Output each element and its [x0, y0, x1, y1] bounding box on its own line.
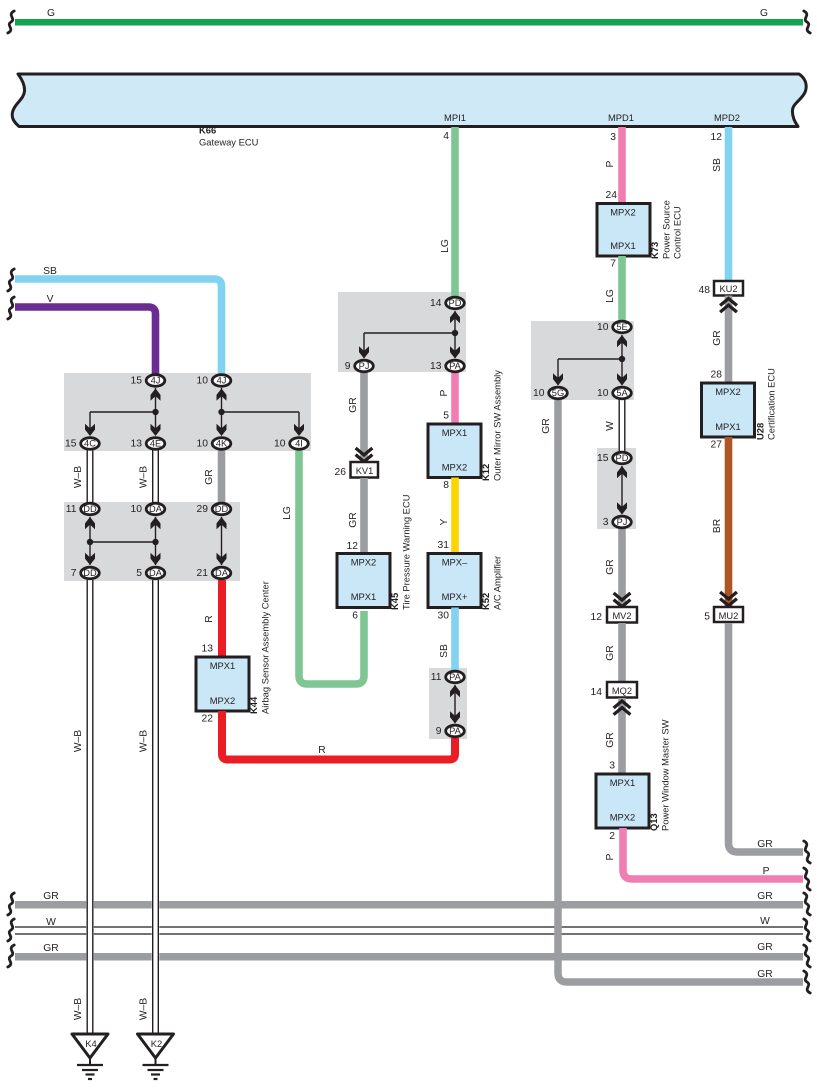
junction block (PD/PJ right) [597, 448, 636, 529]
bus G top [15, 19, 803, 26]
svg-text:3: 3 [603, 517, 609, 528]
svg-text:MPX1: MPX1 [715, 421, 741, 432]
svg-text:22: 22 [202, 714, 214, 725]
svg-text:LG: LG [282, 506, 293, 520]
wire W-B from DA5 to ground K2 [139, 580, 160, 1033]
svg-text:7: 7 [610, 259, 616, 270]
svg-text:13: 13 [131, 439, 143, 450]
ECU K73 Power Source Control ECU [597, 200, 683, 259]
svg-text:G: G [47, 8, 55, 19]
svg-text:W–B: W–B [139, 730, 150, 752]
svg-text:13: 13 [202, 644, 214, 655]
svg-text:PA: PA [449, 361, 462, 371]
connector DA pin 21 [197, 567, 231, 579]
svg-text:Airbag Sensor Assembly Center: Airbag Sensor Assembly Center [260, 581, 271, 714]
svg-text:3: 3 [609, 761, 615, 772]
wire GR from PJ3 to MV2 [618, 528, 626, 607]
svg-text:GR: GR [757, 942, 772, 953]
connector MQ2 pin 14 [591, 682, 637, 698]
svg-text:28: 28 [711, 370, 723, 381]
svg-text:8: 8 [443, 480, 449, 491]
wire Y from K12 pin 8 to K52 pin 31 [451, 478, 459, 554]
connector 4I pin 10 [274, 438, 308, 450]
svg-text:GR: GR [757, 891, 772, 902]
connector MU2 pin 5 [704, 607, 743, 623]
svg-text:Power Source: Power Source [661, 200, 672, 259]
wire SB left entry [15, 279, 222, 374]
connector 4J pin 10 [197, 375, 231, 387]
svg-text:W–B: W–B [73, 466, 84, 488]
svg-text:5G: 5G [552, 388, 564, 398]
wire LG from 4I to K45 pin 6 [299, 450, 364, 684]
wire P from PA13 to K12 pin 5 [451, 372, 459, 424]
svg-text:31: 31 [438, 540, 450, 551]
svg-text:MPX2: MPX2 [210, 695, 236, 706]
ECU U28 Certification ECU [702, 368, 777, 440]
svg-text:15: 15 [597, 453, 609, 464]
svg-text:KU2: KU2 [719, 284, 737, 294]
svg-text:W–B: W–B [139, 466, 150, 488]
wire link 4J15 to 4C/4E [90, 388, 156, 429]
svg-text:MPX1: MPX1 [442, 427, 468, 438]
wire GR from KV1 to K45 pin 12 [360, 478, 368, 554]
svg-text:PD: PD [616, 453, 629, 463]
svg-text:Outer Mirror SW Assembly: Outer Mirror SW Assembly [492, 370, 503, 481]
junction block J/B no.1 (4J/4C/4E/4K/4I) [64, 373, 311, 451]
svg-text:P: P [439, 389, 450, 396]
svg-text:MPX2: MPX2 [442, 462, 468, 473]
connector 4C pin 15 [65, 438, 99, 450]
ECU K45 Tire Pressure Warning ECU [337, 494, 412, 610]
connector PD pin 15 [597, 452, 631, 464]
svg-text:K73: K73 [649, 242, 660, 259]
connector PJ pin 3 [603, 516, 632, 528]
svg-text:26: 26 [335, 467, 347, 478]
svg-text:MPX1: MPX1 [610, 777, 636, 788]
svg-text:4K: 4K [216, 439, 228, 449]
bus bar GR horizontal 1 [15, 901, 803, 909]
svg-text:W–B: W–B [73, 730, 84, 752]
svg-text:4J: 4J [217, 376, 227, 386]
svg-text:MPI1: MPI1 [444, 112, 466, 123]
svg-text:MPX1: MPX1 [210, 660, 236, 671]
svg-text:DA: DA [149, 568, 163, 578]
svg-text:DD: DD [215, 504, 229, 514]
PA11/PA9 pair internals [454, 685, 456, 723]
wire GR from MQ2 to Q13 pin 3 [618, 698, 626, 774]
svg-text:29: 29 [197, 504, 209, 515]
svg-text:GR: GR [757, 969, 772, 980]
svg-text:W: W [760, 916, 770, 927]
svg-text:MPX2: MPX2 [610, 207, 636, 218]
svg-text:P: P [605, 160, 616, 167]
svg-text:5A: 5A [616, 388, 628, 398]
svg-text:5E: 5E [616, 322, 627, 332]
svg-text:K4: K4 [85, 1038, 96, 1049]
svg-text:GR: GR [43, 943, 58, 954]
connector KU2 pin 48 [699, 281, 743, 296]
wire BR from U28 pin 27 to MU2 [725, 437, 733, 607]
svg-text:R: R [318, 745, 325, 756]
svg-text:4C: 4C [84, 439, 96, 449]
svg-text:PA: PA [449, 726, 462, 736]
wire V left entry [15, 307, 156, 374]
wire GR from KU2 to U28 pin 28 [725, 296, 733, 384]
wire LG from MPI1 pin 4 [451, 127, 459, 297]
svg-text:48: 48 [699, 285, 711, 296]
svg-text:10: 10 [197, 439, 209, 450]
svg-text:14: 14 [591, 687, 603, 698]
svg-text:P: P [605, 853, 616, 860]
svg-text:2: 2 [609, 831, 615, 842]
svg-text:W–B: W–B [73, 998, 84, 1020]
svg-text:GR: GR [605, 732, 616, 747]
junction block (5E/5G/5A) [531, 321, 634, 400]
svg-text:10: 10 [597, 322, 609, 333]
ground K4 [72, 1034, 108, 1079]
svg-text:DA: DA [215, 568, 229, 578]
PD15/PJ3 pair internals [621, 466, 623, 514]
svg-text:12: 12 [347, 541, 359, 552]
connector PJ pin 9 [345, 360, 374, 372]
svg-text:SB: SB [439, 644, 450, 658]
middle block internals (PD14/PJ9/PA13) [364, 311, 455, 358]
connector 5A pin 10 [597, 387, 631, 399]
wire W from 5A to PD15 [605, 399, 626, 452]
wire P from Q13 pin 2 to right edge [623, 828, 803, 879]
svg-text:SB: SB [43, 266, 57, 277]
svg-text:K45: K45 [389, 593, 400, 610]
connector 4J pin 15 [131, 375, 165, 387]
wire R from K44 pin 22 to PA9 [222, 711, 455, 760]
svg-text:PJ: PJ [359, 361, 370, 371]
svg-text:K12: K12 [480, 464, 491, 481]
svg-text:11: 11 [66, 504, 77, 515]
wire P from MPD1 pin 3 [618, 127, 626, 205]
svg-text:W: W [605, 421, 616, 431]
svg-text:MPX1: MPX1 [351, 591, 377, 602]
ECU K12 Outer Mirror SW Assembly [428, 370, 503, 481]
svg-text:R: R [204, 615, 215, 622]
svg-text:V: V [47, 294, 54, 305]
gateway ECU bus K66 [12, 74, 806, 127]
shield chevron up [720, 299, 737, 313]
svg-text:GR: GR [605, 559, 616, 574]
wire SB from MPD2 pin 12 [725, 127, 733, 281]
svg-text:4E: 4E [150, 439, 161, 449]
junction block (PA/PA) [429, 668, 467, 739]
svg-text:MV2: MV2 [612, 611, 631, 621]
svg-text:Control ECU: Control ECU [672, 206, 683, 259]
bus end braces right [804, 841, 810, 863]
svg-text:5: 5 [136, 568, 142, 579]
svg-text:U28: U28 [755, 423, 766, 440]
svg-text:27: 27 [711, 440, 723, 451]
svg-text:Q13: Q13 [648, 813, 659, 831]
wire SB from K52 pin 30 to PA11 [451, 608, 459, 671]
svg-text:15: 15 [65, 439, 77, 450]
connector PA pin 13 [430, 360, 464, 372]
svg-text:13: 13 [430, 361, 442, 372]
svg-text:MPD2: MPD2 [714, 112, 740, 123]
svg-text:DA: DA [149, 504, 163, 514]
ground K2 [138, 1034, 174, 1079]
connector 4K pin 10 [197, 438, 231, 450]
svg-text:12: 12 [711, 132, 723, 143]
svg-text:DD: DD [83, 568, 97, 578]
svg-text:GR: GR [204, 469, 215, 484]
svg-text:W: W [46, 917, 56, 928]
svg-text:4: 4 [443, 131, 449, 142]
wire GR from PJ9 to KV1 [360, 372, 368, 462]
svg-text:Tire Pressure Warning ECU: Tire Pressure Warning ECU [401, 494, 412, 610]
connector PA pin 11 [431, 671, 465, 683]
svg-text:MPX–: MPX– [442, 557, 468, 568]
connector DD pin 7 [71, 567, 100, 579]
svg-text:BR: BR [712, 519, 723, 533]
svg-text:GR: GR [605, 645, 616, 660]
svg-text:MPX+: MPX+ [442, 591, 468, 602]
svg-text:K2: K2 [151, 1038, 162, 1049]
svg-text:9: 9 [436, 726, 442, 737]
svg-text:11: 11 [431, 672, 442, 683]
svg-text:14: 14 [430, 298, 442, 309]
svg-text:10: 10 [274, 439, 286, 450]
svg-text:12: 12 [591, 612, 603, 623]
svg-text:SB: SB [712, 158, 723, 172]
svg-text:KV1: KV1 [356, 466, 374, 476]
connector DA pin 5 [136, 567, 165, 579]
svg-text:MPX2: MPX2 [351, 557, 377, 568]
connector DA pin 10 [131, 503, 165, 515]
svg-text:MU2: MU2 [719, 611, 739, 621]
svg-text:Y: Y [439, 518, 450, 525]
svg-text:W–B: W–B [139, 998, 150, 1020]
svg-text:10: 10 [533, 388, 545, 399]
svg-text:MPX2: MPX2 [610, 812, 636, 823]
svg-text:LG: LG [440, 239, 451, 253]
svg-text:GR: GR [348, 397, 359, 412]
svg-text:5: 5 [704, 612, 710, 623]
connector DD pin 11 [66, 503, 100, 515]
svg-text:K66: K66 [199, 125, 216, 136]
right block internals (5E/5G/5A) [558, 335, 622, 385]
wire LG from K73 pin 7 to 5E [618, 256, 626, 321]
wire link 4J10 to 4K/4I [222, 388, 300, 429]
connector 5G pin 10 [533, 387, 567, 399]
svg-text:30: 30 [438, 611, 450, 622]
junction block no.2 (DD/DA) [64, 502, 240, 581]
svg-text:Power Window Master SW: Power Window Master SW [660, 719, 671, 831]
svg-text:4I: 4I [295, 439, 303, 449]
svg-text:10: 10 [131, 504, 143, 515]
svg-text:K52: K52 [480, 593, 491, 610]
wire W-B from DD7 to ground K4 [73, 580, 94, 1033]
svg-text:PJ: PJ [617, 517, 628, 527]
connector 4E pin 13 [131, 438, 165, 450]
svg-text:10: 10 [597, 388, 609, 399]
connector 5E pin 10 [597, 321, 631, 333]
connector MV2 pin 12 [591, 607, 637, 623]
ECU K44 Airbag Sensor Assembly Center [196, 581, 271, 714]
svg-text:6: 6 [352, 611, 358, 622]
svg-text:GR: GR [712, 330, 723, 345]
bus bar W horizontal [15, 927, 803, 934]
svg-text:21: 21 [197, 568, 209, 579]
wire W-B from 4C to DD11 [73, 450, 94, 503]
svg-text:MQ2: MQ2 [612, 686, 632, 696]
svg-text:7: 7 [71, 568, 77, 579]
wire GR from 4K to DD29 [218, 450, 226, 503]
connector KV1 pin 26 [335, 462, 378, 478]
svg-text:LG: LG [605, 289, 616, 303]
svg-text:MPX1: MPX1 [610, 240, 636, 251]
ECU Q13 Power Window Master SW [596, 719, 671, 831]
connector PA pin 9 [436, 725, 465, 737]
svg-text:3: 3 [610, 132, 616, 143]
bus bar GR horizontal 2 [15, 953, 803, 961]
wire GR from MU2 to right edge [729, 623, 804, 852]
svg-text:GR: GR [43, 891, 58, 902]
svg-text:K44: K44 [248, 696, 259, 714]
bus bar GR horizontal 3 and wire GR from 5G [558, 399, 803, 982]
svg-text:9: 9 [345, 361, 351, 372]
svg-text:5: 5 [443, 411, 449, 422]
svg-text:GR: GR [757, 839, 772, 850]
wire R from DA21 to K44 pin 13 [218, 580, 226, 657]
svg-text:Certification ECU: Certification ECU [766, 368, 777, 440]
svg-text:P: P [763, 866, 770, 877]
svg-text:Gateway ECU: Gateway ECU [199, 137, 259, 148]
svg-text:15: 15 [131, 376, 143, 387]
svg-text:PA: PA [449, 672, 462, 682]
ECU K52 A/C Amplifier [428, 554, 503, 611]
connector DD pin 29 [197, 503, 231, 515]
svg-text:G: G [760, 8, 768, 19]
wire GR from MV2 to MQ2 [618, 623, 626, 682]
connector PD pin 14 [430, 297, 464, 309]
svg-text:DD: DD [83, 504, 97, 514]
svg-text:A/C Amplifier: A/C Amplifier [492, 556, 503, 610]
svg-text:4J: 4J [151, 376, 161, 386]
wire W-B from 4E to DA10 [139, 450, 160, 503]
junction block 2 internals [90, 517, 222, 565]
svg-text:GR: GR [541, 418, 552, 433]
svg-text:MPX2: MPX2 [715, 386, 741, 397]
bus end braces left [8, 893, 14, 915]
svg-text:10: 10 [197, 376, 209, 387]
svg-text:MPD1: MPD1 [608, 112, 634, 123]
svg-text:GR: GR [348, 512, 359, 527]
junction block (PD/PJ/PA) [338, 292, 466, 372]
svg-text:PD: PD [449, 298, 462, 308]
svg-text:24: 24 [606, 190, 618, 201]
